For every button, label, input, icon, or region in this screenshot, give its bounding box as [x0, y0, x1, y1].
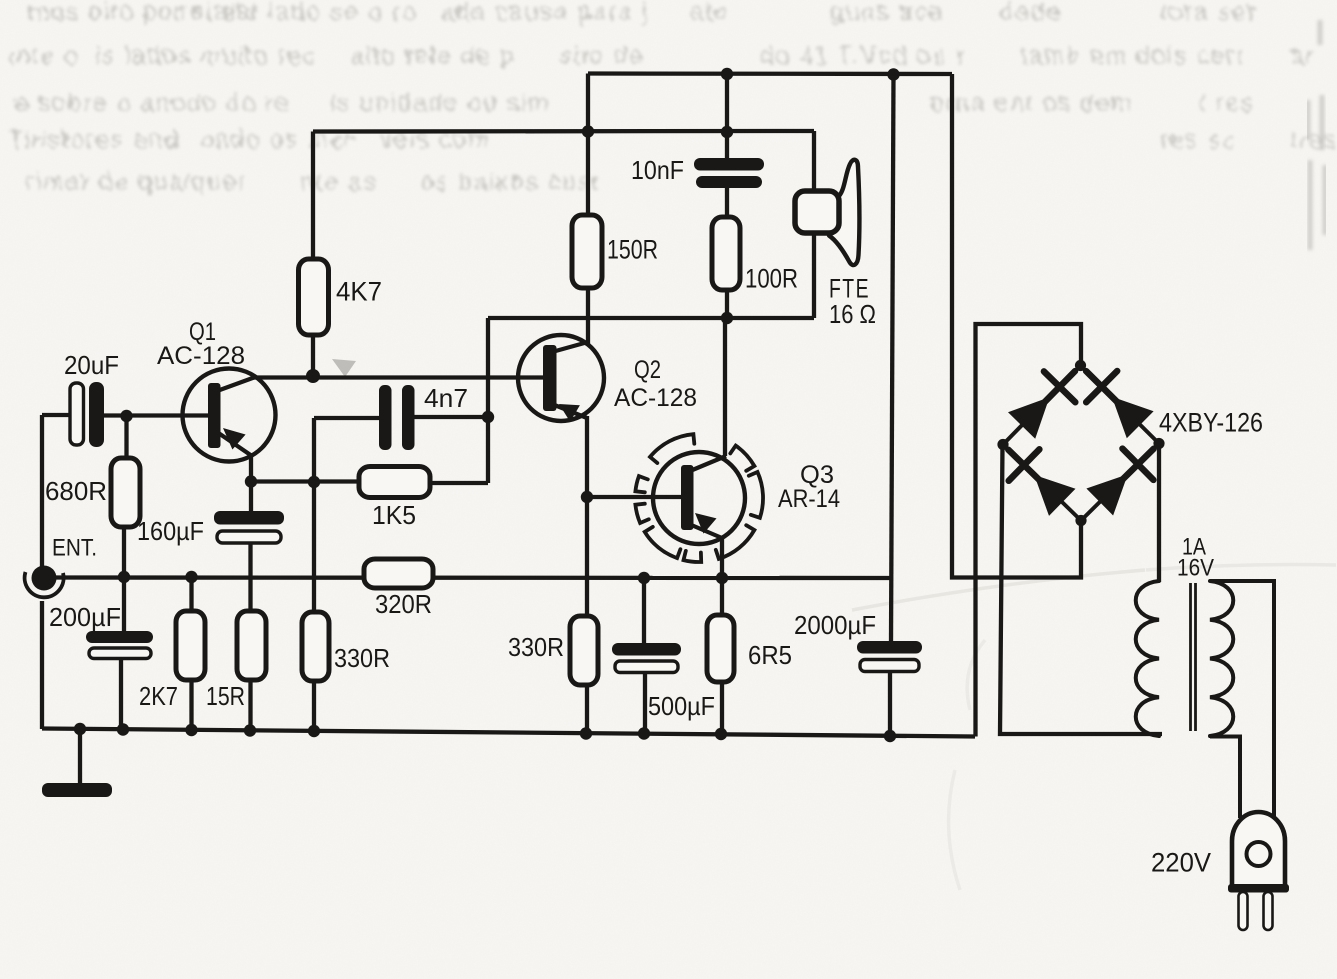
svg-text:os baixos cust: os baixos cust [420, 168, 599, 196]
wire 2K7 column [189, 577, 193, 730]
svg-text:ada causa para j: ada causa para j [440, 0, 649, 26]
junction ground rail / 330R mid [580, 727, 592, 739]
junction 680R / feedback rail [118, 571, 130, 583]
wire 4K7 branch vertical [311, 132, 315, 376]
wire primary top to plug [1210, 581, 1274, 818]
wire bridge top to ground rail vertical x=975 [976, 324, 1082, 737]
wire top supply rail [588, 71, 952, 76]
diode D2 (top-right) [1086, 371, 1117, 402]
svg-text:20uF: 20uF [64, 350, 119, 380]
svg-text:4n7: 4n7 [424, 383, 468, 413]
svg-text:500µF: 500µF [648, 691, 715, 721]
junction Q2 emitter / Q3 base [581, 491, 593, 503]
svg-text:4XBY-126: 4XBY-126 [1159, 408, 1263, 438]
svg-text:330R: 330R [508, 632, 564, 662]
diode D1 (top-left) [1044, 371, 1075, 402]
svg-text:AC-128: AC-128 [614, 384, 697, 412]
svg-text:l res: l res [1200, 89, 1255, 117]
junction ground rail / ground stub [74, 723, 86, 735]
svg-text:alto rele de p: alto rele de p [350, 42, 516, 70]
bridge rectifier edges [1003, 366, 1081, 445]
svg-text:tres: tres [1290, 126, 1337, 154]
svg-text:is lados muito rec: is lados muito rec [95, 42, 317, 70]
resistor 15R [237, 611, 266, 680]
resistor 2K7 [176, 611, 205, 680]
wire 10nF/100R branch vertical upper [725, 74, 729, 160]
node bridge top [1075, 360, 1086, 371]
wire 500uF top lead [642, 578, 646, 644]
junction output node [721, 312, 733, 324]
junction 2K7 / feedback rail [185, 571, 197, 583]
svg-text:15R: 15R [206, 681, 245, 711]
svg-text:AC-128: AC-128 [157, 342, 245, 370]
node bridge right [1153, 438, 1164, 449]
svg-text:100R: 100R [745, 264, 798, 294]
wire Q1 emitter node horizontal y=482 [251, 479, 360, 483]
wire bridge right node to secondary top [1157, 444, 1161, 582]
wire supply vertical x=892 to 2000uF [891, 74, 894, 643]
wire Q1 base lead [104, 413, 209, 417]
svg-text:AR-14: AR-14 [778, 485, 840, 513]
svg-text:150R: 150R [607, 235, 658, 265]
junction ground rail / 15R [244, 724, 256, 736]
capacitor 20uF input electrolytic [70, 383, 84, 445]
svg-text:680R: 680R [45, 476, 107, 506]
capacitor 2000uF [857, 641, 922, 654]
resistor 100R [712, 217, 740, 290]
svg-text:res sc: res sc [1160, 126, 1236, 154]
svg-text:ls unidade ou sim: ls unidade ou sim [330, 89, 550, 117]
wire 680R top lead [124, 416, 128, 458]
resistor 6R5 [707, 615, 734, 682]
junction top rail / supply drop [887, 68, 899, 80]
wire 160uF to 15R to rail [248, 542, 252, 730]
svg-text:ro alto lado se o ro: ro alto lado se o ro [180, 0, 417, 26]
svg-text:220V: 220V [1151, 848, 1211, 878]
svg-text:1K5: 1K5 [372, 500, 416, 530]
capacitor 4n7 [379, 385, 392, 450]
junction ground rail / 200uF [117, 723, 129, 735]
svg-text:ENT.: ENT. [52, 535, 97, 562]
wire bridge left node to transformer secondary bottom [1000, 445, 1162, 734]
svg-text:10nF: 10nF [631, 155, 684, 185]
junction Q3 emitter / 6R5 [716, 572, 728, 584]
diode D4 (bottom-right) [1122, 449, 1153, 480]
svg-text:do 41 T.Vcd ou r: do 41 T.Vcd ou r [760, 42, 966, 70]
wire 20uF left lead [42, 413, 71, 417]
wire 1K5 right lead [429, 481, 488, 485]
junction ground rail / 2K7 [185, 724, 197, 736]
wire second horizontal rail y=131 [313, 129, 814, 134]
capacitor 200uF [86, 631, 153, 643]
wire bottom ground rail [42, 729, 975, 737]
resistor 1K5 (horizontal) [359, 467, 430, 498]
svg-text:330R: 330R [334, 643, 390, 673]
svg-text:e sobre o anodo do re: e sobre o anodo do re [14, 89, 290, 117]
wire Q1 emitter vertical to 160uF [249, 455, 253, 513]
junction 500uF / feedback rail [638, 572, 650, 584]
transformer T1 1A 16V [1136, 581, 1159, 736]
wire ENT ground vertical [40, 601, 44, 729]
wire Q3 emitter vertical / 6R5 branch [720, 537, 724, 734]
svg-text:320R: 320R [375, 589, 432, 619]
wire Q2 emitter to Q3 base [587, 495, 682, 499]
svg-text:16V: 16V [1177, 555, 1214, 582]
wire 680R bottom lead [122, 527, 126, 576]
node bridge bottom [1075, 515, 1086, 526]
wire speaker bottom lead [812, 229, 816, 318]
wire primary bottom to plug [1210, 737, 1240, 819]
svg-text:4K7: 4K7 [336, 277, 382, 307]
svg-text:160µF: 160µF [137, 516, 204, 546]
wire 500uF bottom lead [643, 672, 647, 733]
junction ground rail / 2000uF [884, 730, 896, 742]
svg-text:rca: rca [905, 0, 944, 26]
svg-text:Tiristores end: Tiristores end [8, 126, 180, 154]
transistor Q2 (AC-128 pnp) [518, 335, 604, 421]
wire input vertical to ENT [40, 415, 44, 568]
resistor 4K7 [299, 259, 329, 335]
capacitor 160uF [214, 511, 284, 525]
svg-text:em dois cert: em dois cert [1090, 42, 1244, 70]
wire 4n7 left lead [314, 416, 380, 420]
svg-text:Q2: Q2 [634, 356, 661, 384]
wire ground stub [78, 729, 82, 784]
svg-text:16 Ω: 16 Ω [829, 299, 876, 329]
svg-text:rimar de qualquer: rimar de qualquer [26, 168, 247, 196]
wire feedback vertical x=488 [486, 318, 490, 483]
resistor 150R [572, 215, 602, 288]
svg-text:tamb: tamb [1020, 42, 1082, 70]
wire 150R branch vertical (top rail to Q2 collector) [586, 74, 590, 347]
svg-text:6R5: 6R5 [748, 640, 792, 670]
svg-text:ar: ar [1290, 42, 1315, 70]
junction rail2 / 150R [582, 125, 594, 137]
svg-text:dade: dade [1000, 0, 1062, 26]
junction 20uF / 680R [120, 410, 132, 422]
wire output feedback horizontal y=318 [488, 316, 814, 320]
junction 4K7 / collector wire [306, 369, 320, 383]
junction 4n7 right [482, 411, 494, 423]
mains plug 220V [1232, 812, 1285, 888]
svg-text:sito de: sito de [560, 42, 644, 70]
svg-text:guns a: guns a [830, 0, 914, 26]
wire Q2 emitter vertical / 330R branch [585, 416, 589, 733]
svg-text:ınte o: ınte o [8, 42, 80, 70]
input terminal ENT. [32, 566, 57, 591]
wire 200uF top lead [122, 577, 126, 633]
wire 200uF bottom lead [119, 657, 123, 729]
transistor Q1 (AC-128 pnp) [183, 369, 276, 462]
diode D3 (bottom-left) [1008, 449, 1040, 481]
junction ground rail / 500uF [638, 727, 650, 739]
svg-text:2K7: 2K7 [139, 681, 178, 711]
node bridge left [997, 439, 1008, 450]
wire 4n7/1K5 left vertical to 330R [312, 418, 316, 730]
svg-text:ato: ato [690, 0, 729, 26]
junction 1K5 left [308, 476, 320, 488]
wire 4n7 right lead [413, 415, 488, 419]
capacitor 500uF [612, 643, 681, 656]
svg-text:200µF: 200µF [49, 602, 121, 632]
svg-text:2000µF: 2000µF [794, 610, 876, 640]
resistor 330R left [302, 612, 329, 681]
transistor Q3 (AR-14 pnp power) [653, 452, 745, 544]
junction rail2 / 10nF branch [721, 126, 733, 138]
svg-text:orna ent os dem: orna ent os dem [930, 89, 1133, 117]
resistor 320R (horizontal) [364, 559, 433, 588]
junction top rail / 10nF [721, 68, 733, 80]
svg-text:tora ser: tora ser [1160, 0, 1257, 26]
wire 2000uF bottom lead [888, 671, 892, 736]
resistor 330R mid [570, 616, 598, 685]
junction ground rail / 330R left [308, 725, 320, 737]
wire Q1 collector to Q2 base [252, 375, 544, 379]
wire speaker top lead [812, 131, 816, 196]
wire 10nF to 100R and output node [725, 187, 729, 318]
speaker FTE 16 ohm [829, 160, 859, 265]
capacitor 10nF [694, 158, 764, 171]
ground [42, 783, 112, 797]
junction Q1 emitter [245, 475, 257, 487]
wire Q3 collector vertical [723, 318, 727, 456]
resistor 680R [111, 458, 140, 527]
wire emitter feedback rail y=577 [44, 575, 890, 580]
wire mains-side vertical x=951 and bridge bottom link [952, 74, 1081, 578]
junction ground rail / 6R5 [715, 728, 727, 740]
